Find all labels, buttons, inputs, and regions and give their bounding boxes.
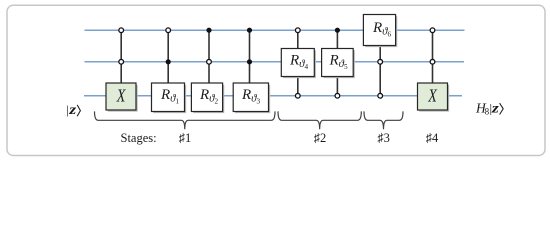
control c1 top open (119, 28, 124, 33)
gate R theta5 (shadow) (323, 50, 354, 77)
control c1 mid open (119, 59, 124, 64)
svg-text:X: X (116, 85, 127, 105)
control c8 top open (430, 28, 435, 33)
output ket angle bracket (500, 103, 504, 114)
gate R theta5 (322, 49, 354, 77)
svg-text:♯1: ♯1 (179, 131, 192, 145)
input ket angle bracket (77, 105, 80, 116)
wire q0 (top) (85, 29, 465, 31)
wire q1 (middle) (85, 61, 465, 63)
wire column 5 control line (297, 30, 299, 96)
svg-text:Stages:: Stages: (121, 131, 157, 145)
wire column 7 control line (379, 45, 381, 96)
gate R theta2 (shadow) (193, 85, 223, 113)
gate R theta3 (233, 83, 268, 112)
control c7 bottom open (378, 93, 383, 98)
control c6 top filled (335, 28, 340, 33)
gate R theta1 (shadow) (153, 85, 185, 113)
control c6 bottom open (335, 93, 340, 98)
control c7 mid open (378, 59, 383, 64)
wire column 4 control line (249, 30, 251, 83)
control c2 top open (166, 28, 171, 33)
control c2 mid filled (166, 59, 171, 64)
gate R theta4 (shadow) (283, 50, 315, 77)
gate R theta3 (shadow) (235, 85, 270, 113)
brace stage 1 (95, 111, 276, 129)
svg-text:♯3: ♯3 (377, 131, 390, 145)
control c4 mid filled (247, 59, 252, 64)
gate R theta1 (152, 83, 185, 112)
gate X right (shadow) (419, 85, 448, 111)
brace stage 2 (278, 111, 361, 129)
svg-text:X: X (427, 85, 438, 105)
wire q2 (bottom) (84, 95, 462, 97)
control c3 top filled (206, 28, 211, 33)
svg-text:♯2: ♯2 (314, 131, 327, 145)
control c4 top filled (247, 28, 252, 33)
gate R theta6 (363, 15, 395, 46)
control c5 bottom open (295, 93, 300, 98)
wire column 3 control line (208, 30, 210, 83)
wire column 2 control line (167, 30, 169, 83)
gate X right U2 (418, 83, 448, 110)
wire column 6 control line (336, 30, 338, 96)
gate R theta2 (191, 83, 222, 112)
wire column 1 control line (120, 30, 122, 83)
wire column 8 control line (432, 30, 434, 83)
gate X left (shadow) (108, 85, 137, 111)
svg-text:|z: |z (66, 102, 77, 117)
svg-text:♯4: ♯4 (426, 131, 439, 145)
brace stage 3 (364, 111, 403, 129)
gate X left U1 (106, 83, 136, 110)
control c3 mid open (207, 59, 212, 64)
control c8 mid open (430, 59, 435, 64)
gate R theta4 (281, 49, 314, 77)
gate R theta6 (shadow) (365, 16, 396, 46)
control c5 top open (295, 28, 300, 33)
